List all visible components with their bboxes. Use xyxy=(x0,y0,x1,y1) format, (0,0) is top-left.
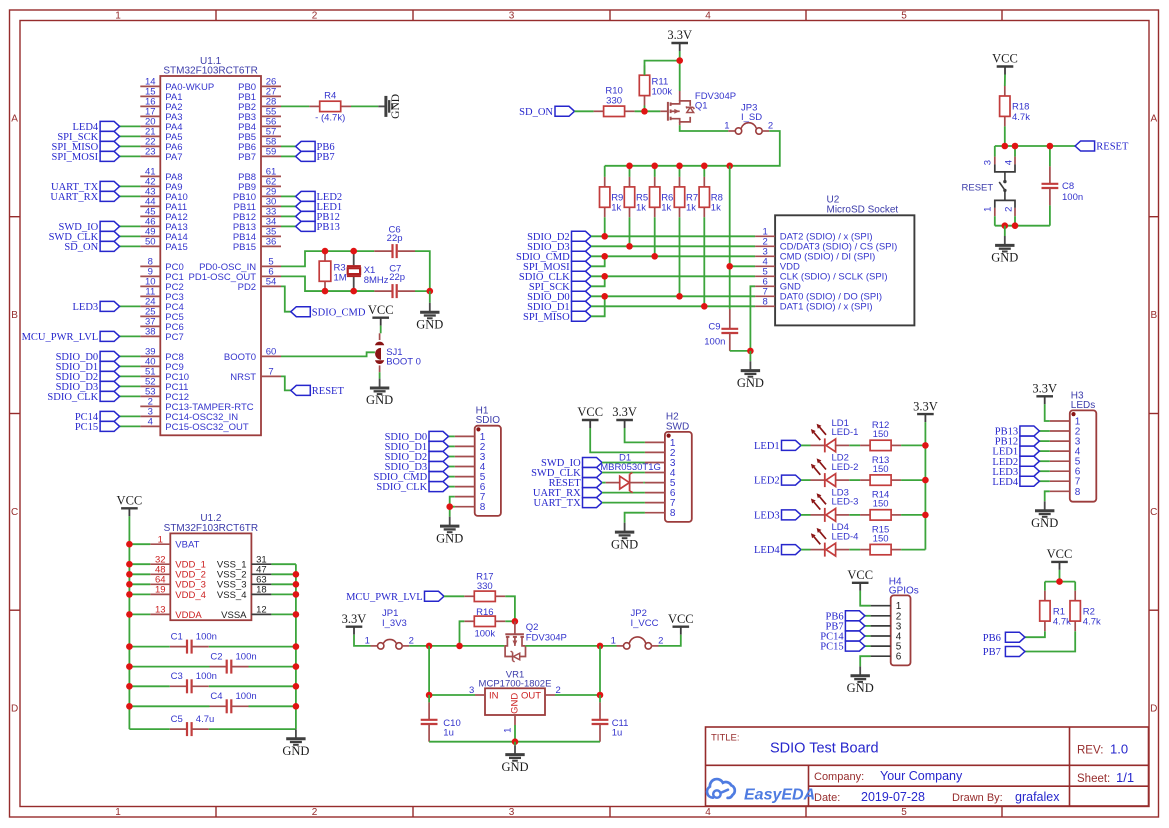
net flag RESET (right) xyxy=(1075,141,1129,153)
U1.1 pin 23 PA7 xyxy=(140,147,182,163)
net flag SPI_MISO xyxy=(52,141,120,153)
svg-text:150: 150 xyxy=(873,499,889,510)
junction dots on pull-up rail xyxy=(626,163,733,170)
svg-text:4: 4 xyxy=(705,807,711,818)
U1.2 pin 31 VSS_1 xyxy=(217,554,271,570)
wire LD1 to R12 xyxy=(849,444,860,446)
wire PD2 to SDIO_CMD flag xyxy=(281,286,291,311)
svg-text:FDV304P: FDV304P xyxy=(526,633,567,644)
wire VCC to R18 xyxy=(1004,75,1006,87)
wire rail to C4 xyxy=(129,705,209,707)
wire R16 to 3V3 rail xyxy=(460,621,465,646)
U1.1 pin 49 PA14 xyxy=(140,227,188,243)
net flag PB12 (H3) xyxy=(995,436,1040,448)
net flag MCU_PWR_LVL xyxy=(22,331,120,343)
wire R5 to SDIO_D3 row xyxy=(629,217,631,246)
junction dots VR1 row xyxy=(426,692,603,699)
net flag SDIO_D3 (H1) xyxy=(385,462,449,474)
svg-text:22p: 22p xyxy=(389,272,405,283)
net flag SWD_CLK xyxy=(49,231,120,243)
net flag SDIO_D0 (bus) xyxy=(527,291,591,303)
junction dots crystal rails xyxy=(322,248,433,295)
H1 pin 2 xyxy=(455,442,486,453)
svg-text:1k: 1k xyxy=(636,202,646,213)
crystal X1 8MHz xyxy=(347,251,389,291)
U2 pin 6 GND xyxy=(755,277,801,293)
net flag PB7 xyxy=(296,151,335,163)
power flag VCC at H2 xyxy=(577,405,603,428)
H3 pin 4 xyxy=(1050,447,1081,458)
solder jumper JP2 I_VCC xyxy=(611,608,664,649)
svg-text:150: 150 xyxy=(873,533,889,544)
svg-text:GND: GND xyxy=(436,531,463,545)
H4 pin 2 xyxy=(871,611,902,622)
resistor R7 1k xyxy=(674,166,698,218)
U1.1 pin 57 PB5 xyxy=(238,127,281,143)
svg-text:1: 1 xyxy=(982,207,993,212)
U1.1 pin 28 PB2 xyxy=(238,97,281,113)
svg-text:4.7k: 4.7k xyxy=(1053,616,1071,627)
wire to PC15 flag xyxy=(120,425,141,427)
svg-text:VCC: VCC xyxy=(668,612,694,626)
svg-text:8: 8 xyxy=(480,502,486,513)
ground under H1 xyxy=(436,517,463,546)
wire VSS_3 to rail xyxy=(271,583,296,585)
wire PD0-OSC_IN to crystal rail xyxy=(281,251,374,266)
svg-text:1.0: 1.0 xyxy=(1110,742,1128,757)
junction dot C9 GND xyxy=(747,348,754,355)
IC U2 MicroSD Socket xyxy=(775,195,914,326)
U1.1 pin 45 PA12 xyxy=(140,207,188,223)
H2 pin 6 xyxy=(645,488,676,499)
U2 pin 7 DAT0 (SDIO) / DO (SPI) xyxy=(755,287,882,303)
svg-text:C2: C2 xyxy=(210,651,222,662)
net flag PB13 (H3) xyxy=(995,426,1040,438)
svg-text:1: 1 xyxy=(724,121,729,132)
H4 pin 3 xyxy=(871,621,902,632)
svg-text:VCC: VCC xyxy=(368,303,394,317)
wire SPI_MISO joins D0 xyxy=(591,296,605,316)
wire regulator ground rail xyxy=(429,741,600,743)
power flag VCC at R1 R2 xyxy=(1047,547,1073,570)
svg-text:100k: 100k xyxy=(474,629,495,640)
svg-text:7: 7 xyxy=(268,367,273,378)
ground (rotated) at R4 xyxy=(378,94,402,119)
wire VSS_4 to rail xyxy=(271,593,296,595)
svg-text:50: 50 xyxy=(145,237,156,248)
net flag SDIO_D3 xyxy=(56,381,120,393)
U1.1 pin 41 PA8 xyxy=(140,167,182,183)
svg-text:PB6: PB6 xyxy=(983,633,1001,644)
svg-text:8MHz: 8MHz xyxy=(364,275,389,286)
svg-text:LED-2: LED-2 xyxy=(832,462,859,473)
net flag LED1 (H3) xyxy=(992,446,1039,458)
svg-text:150: 150 xyxy=(873,464,889,475)
svg-text:54: 54 xyxy=(266,277,277,288)
U1.1 pin 37 PC6 xyxy=(140,317,183,333)
svg-text:3.3V: 3.3V xyxy=(1032,382,1057,396)
wire LED4 to LD4 xyxy=(801,549,811,551)
resistor R1 4.7k xyxy=(1040,582,1071,632)
net flag SDIO_CLK (bus) xyxy=(519,271,591,283)
svg-text:PC15: PC15 xyxy=(820,642,843,653)
wire R4 to GND xyxy=(351,105,378,107)
wire to SDIO_D1 flag xyxy=(120,365,141,367)
header H1 SDIO xyxy=(475,406,501,516)
net flag PB6 (pullup) xyxy=(983,632,1025,644)
net flag PC14 (H4) xyxy=(820,631,865,643)
LED LD2 LED-2 xyxy=(811,453,859,488)
wire LED3 to H3 xyxy=(1039,470,1049,472)
H1 pin 3 xyxy=(455,452,486,463)
wire JP1 to 3V3 node xyxy=(409,645,429,647)
wire JP3 to pull-up rail xyxy=(730,131,780,166)
header H4 GPIOs xyxy=(889,576,919,665)
net flag SDIO_D1 (H1) xyxy=(385,441,449,453)
svg-text:VSS_4: VSS_4 xyxy=(217,590,247,601)
net flag SDIO_D2 (H1) xyxy=(385,452,449,464)
svg-text:150: 150 xyxy=(873,429,889,440)
svg-text:4: 4 xyxy=(705,11,711,22)
svg-text:OUT: OUT xyxy=(521,691,541,702)
wire to LED4 flag xyxy=(120,125,141,127)
svg-text:grafalex: grafalex xyxy=(1015,790,1060,804)
net flag LED1 xyxy=(296,201,343,213)
net flag SDIO_D0 xyxy=(56,351,120,363)
svg-text:REV:: REV: xyxy=(1077,745,1103,757)
net flag PB6 (H4) xyxy=(826,611,865,623)
svg-text:A: A xyxy=(1150,114,1157,125)
wire rail to C5 xyxy=(129,728,169,730)
net flag PB7 (H4) xyxy=(826,621,865,633)
wire C9 to GND junction xyxy=(730,350,751,352)
net flag SWD_IO (H2) xyxy=(541,458,602,470)
U1.1 pin 16 PA2 xyxy=(140,97,182,113)
net flag MCU_PWR_LVL (driver) xyxy=(346,591,444,603)
net flag SDIO_CMD xyxy=(291,307,366,319)
ground under C9 xyxy=(737,361,764,390)
wire SDIO_D3 to H1 xyxy=(449,466,455,468)
H3 pin 6 xyxy=(1050,467,1081,478)
wire SJ1 to GND xyxy=(379,365,381,378)
svg-text:1: 1 xyxy=(115,11,121,22)
svg-text:VCC: VCC xyxy=(577,405,603,419)
svg-text:STM32F103RCT6TR: STM32F103RCT6TR xyxy=(164,523,258,534)
svg-text:SPI_MOSI: SPI_MOSI xyxy=(52,152,99,163)
wire rail to C2 xyxy=(129,666,209,668)
wire rail to VDD_2 xyxy=(129,573,150,575)
wire to PB13 flag xyxy=(281,225,296,227)
U1.1 pin 50 PA15 xyxy=(140,237,188,253)
svg-text:1: 1 xyxy=(611,636,616,647)
svg-text:GND: GND xyxy=(1031,516,1058,530)
svg-text:MCU_PWR_LVL: MCU_PWR_LVL xyxy=(346,592,423,603)
wire R11 bottom to gate net xyxy=(644,106,646,112)
wire LED2 to LD2 xyxy=(801,479,811,481)
title block xyxy=(706,727,1149,806)
U1.2 pin 48 VDD_2 xyxy=(150,565,206,581)
svg-text:PC15-OSC32_OUT: PC15-OSC32_OUT xyxy=(165,422,249,433)
svg-text:1k: 1k xyxy=(711,202,721,213)
svg-text:GND: GND xyxy=(737,376,764,390)
power flag 3.3V at H2 xyxy=(612,405,637,428)
net flag SPI_MOSI xyxy=(52,151,120,163)
svg-text:VCC: VCC xyxy=(1047,547,1073,561)
svg-text:13: 13 xyxy=(155,605,166,616)
svg-text:RESET: RESET xyxy=(312,386,345,397)
net flag LED2 xyxy=(296,191,343,203)
svg-text:D: D xyxy=(1150,704,1157,715)
wire UART_RX to H2 xyxy=(602,492,645,494)
wire SDIO_D2 to H1 xyxy=(449,456,455,458)
H2 pin 3 xyxy=(645,458,676,469)
svg-text:4: 4 xyxy=(148,417,153,428)
H1 pin 1 xyxy=(455,432,486,443)
svg-text:LED-3: LED-3 xyxy=(832,497,859,508)
wire to SDIO_CLK flag xyxy=(120,395,141,397)
net flag UART_TX xyxy=(51,181,120,193)
wire SDIO_CLK to H1 xyxy=(449,486,455,488)
wire LED1 to H3 xyxy=(1039,450,1049,452)
H3 pin 2 xyxy=(1050,427,1081,438)
svg-text:- (4.7k): - (4.7k) xyxy=(315,113,345,124)
svg-text:UART_TX: UART_TX xyxy=(533,498,581,509)
svg-text:4.7k: 4.7k xyxy=(1012,112,1030,123)
wire H1 pin8 to GND xyxy=(450,507,455,517)
svg-text:I_SD: I_SD xyxy=(741,112,762,123)
junction dot Q2 gate xyxy=(512,618,519,625)
net flag PB6 xyxy=(296,141,335,153)
svg-text:100n: 100n xyxy=(236,691,257,702)
wire VR1 GND pin xyxy=(514,725,516,742)
svg-text:LED-4: LED-4 xyxy=(832,531,859,542)
H2 pin 5 xyxy=(645,478,676,489)
net flag SPI_MISO (bus) xyxy=(523,311,591,323)
U1.1 pin 51 PC10 xyxy=(140,367,189,383)
U1.1 pin 6 PD1-OSC_OUT xyxy=(189,267,281,283)
net flag SWD_IO xyxy=(59,221,120,233)
capacitor C9 100n xyxy=(704,309,738,351)
svg-text:STM32F103RCT6TR: STM32F103RCT6TR xyxy=(163,66,257,77)
U2 pin 5 CLK (SDIO) / SCLK (SPI) xyxy=(755,267,887,283)
junction dots reset net xyxy=(1002,143,1054,229)
svg-text:1/1: 1/1 xyxy=(1116,770,1134,785)
net flag UART_RX (H2) xyxy=(533,488,602,500)
svg-text:GND: GND xyxy=(501,760,528,774)
wire SDIO_D0 to H1 xyxy=(449,435,455,437)
wire LED3 to LD3 xyxy=(801,514,811,516)
wire VCC rail left U1.2 xyxy=(128,516,130,729)
svg-text:8: 8 xyxy=(670,508,676,519)
svg-text:100n: 100n xyxy=(236,651,257,662)
svg-text:R16: R16 xyxy=(476,607,493,618)
U2 pin 2 CD/DAT3 (SDIO) / CS (SPI) xyxy=(755,237,897,253)
wire C4 to VSS rail xyxy=(249,705,296,707)
wire SDIO_D1 to H1 xyxy=(449,445,455,447)
U1.1 pin 62 PB9 xyxy=(238,177,281,193)
power flag 3.3V at H3 xyxy=(1032,382,1057,405)
wire rail to VDD_3 xyxy=(129,583,150,585)
LED LD1 LED-1 xyxy=(811,418,859,453)
U1.1 pin 59 PB7 xyxy=(238,147,281,163)
wire VCC to SJ1 xyxy=(380,326,381,340)
wire VSSA to rail xyxy=(271,613,296,615)
U1.1 pin 25 PC5 xyxy=(140,307,183,323)
svg-text:5: 5 xyxy=(901,11,907,22)
wire SDIO_D0 row xyxy=(591,295,755,297)
svg-text:8: 8 xyxy=(1075,487,1081,498)
svg-text:LEDs: LEDs xyxy=(1071,400,1095,411)
svg-text:LED4: LED4 xyxy=(992,477,1018,488)
net flag PC15 xyxy=(75,421,120,433)
U1.1 pin 35 PB14 xyxy=(233,227,281,243)
svg-text:23: 23 xyxy=(145,147,156,158)
svg-text:3.3V: 3.3V xyxy=(342,612,367,626)
U1.1 pin 4 PC15-OSC32_OUT xyxy=(140,417,249,433)
svg-text:Sheet:: Sheet: xyxy=(1077,773,1110,785)
wire junction to GND xyxy=(749,351,751,361)
H3 pin 7 xyxy=(1050,477,1081,488)
wire D1 to H2 pin5 xyxy=(643,482,645,484)
U1.1 pin 60 BOOT0 xyxy=(224,347,281,363)
wire VR1 OUT xyxy=(555,694,600,696)
U2 pin 1 DAT2 (SDIO) / x (SPI) xyxy=(755,227,872,243)
wire NRST to RESET flag xyxy=(281,376,291,390)
wire to LED2 flag xyxy=(281,195,296,197)
wire SDIO_D2 row xyxy=(591,235,755,237)
svg-text:GPIOs: GPIOs xyxy=(889,586,919,597)
wire R11 top to 3.3V rail xyxy=(645,61,680,76)
power flag VCC at U1.2 xyxy=(117,494,143,517)
U1.1 pin 56 PB4 xyxy=(238,117,281,133)
svg-text:3: 3 xyxy=(509,11,515,22)
wire SDIO_CMD row xyxy=(591,255,755,257)
U1.1 pin 29 PB10 xyxy=(233,187,281,203)
net flag LED4 xyxy=(73,121,120,133)
wire VSS_1 to rail xyxy=(271,563,296,565)
wire rail to VDD_4 xyxy=(129,593,150,595)
resistor R3 1M xyxy=(319,251,347,291)
svg-text:PC7: PC7 xyxy=(165,332,183,343)
wire 3.3V to JP1 xyxy=(354,635,371,646)
U1.1 pin 8 PC0 xyxy=(140,257,183,273)
wire R6 to SDIO_CMD row xyxy=(654,217,656,256)
H1 pin 7 xyxy=(455,492,486,503)
ground under H3 xyxy=(1031,501,1058,530)
wire R10 to Q1 gate xyxy=(635,110,661,112)
svg-text:4: 4 xyxy=(1003,160,1014,165)
wire to PB6 flag xyxy=(281,145,296,147)
net flag SDIO_D0 (H1) xyxy=(385,431,449,443)
wire PB13 to H3 xyxy=(1039,430,1049,432)
U1.1 pin 53 PC12 xyxy=(140,387,189,403)
U1.1 pin 43 PA10 xyxy=(140,187,188,203)
ground under SJ1 xyxy=(366,379,393,408)
svg-text:22p: 22p xyxy=(387,233,403,244)
svg-text:2: 2 xyxy=(312,807,318,818)
wire R9 to SDIO_D2 row xyxy=(604,217,606,236)
U1.1 pin 27 PB1 xyxy=(238,87,281,103)
svg-text:330: 330 xyxy=(606,95,622,106)
net flag SDIO_D2 (bus) xyxy=(527,231,591,243)
svg-text:12: 12 xyxy=(256,605,267,616)
net flag RESET (H2) xyxy=(549,478,602,490)
svg-text:PD2: PD2 xyxy=(238,282,256,293)
svg-text:C9: C9 xyxy=(708,322,720,333)
U1.1 pin 7 NRST xyxy=(230,367,281,383)
svg-text:GND: GND xyxy=(509,693,520,714)
svg-text:LED4: LED4 xyxy=(754,545,780,556)
U1.1 pin 14 PA0-WKUP xyxy=(140,77,214,93)
header H2 SWD xyxy=(665,412,692,522)
power flag 3.3V at JP1 xyxy=(342,612,367,635)
wire VCC node down to VR1 OUT xyxy=(599,646,601,695)
wire PB6 to H4 xyxy=(865,615,871,617)
wire VSS_2 to rail xyxy=(271,573,296,575)
wire LD2 to R13 xyxy=(849,479,860,481)
svg-text:100n: 100n xyxy=(196,671,217,682)
svg-text:59: 59 xyxy=(266,147,277,158)
svg-text:19: 19 xyxy=(155,585,166,596)
power flag VCC at SJ1 xyxy=(368,303,394,326)
svg-text:SDIO Test Board: SDIO Test Board xyxy=(770,741,879,757)
wire rail to C1 xyxy=(129,646,169,648)
H2 pin 2 xyxy=(645,448,676,459)
U2 pin 4 VDD xyxy=(755,257,800,273)
net flag PB13 xyxy=(296,221,340,233)
wire 3V3 node down to VR1 IN xyxy=(428,646,430,695)
U1.1 pin 33 PB12 xyxy=(233,207,281,223)
svg-text:R18: R18 xyxy=(1012,102,1029,113)
svg-text:EasyEDA: EasyEDA xyxy=(744,786,815,803)
H1 pin 4 xyxy=(455,462,486,473)
svg-text:1u: 1u xyxy=(443,728,454,739)
H2 pin 4 xyxy=(645,468,676,479)
U1.1 pin 20 PA4 xyxy=(140,117,182,133)
svg-text:B: B xyxy=(11,310,18,321)
H4 pin 1 xyxy=(871,601,902,612)
H1 pin 6 xyxy=(455,482,486,493)
wire R17 to Q2 gate xyxy=(505,596,515,621)
svg-text:Company:: Company: xyxy=(814,771,864,783)
wire 3.3V LED rail xyxy=(924,422,926,549)
svg-text:BOOT 0: BOOT 0 xyxy=(386,357,421,368)
svg-text:GND: GND xyxy=(611,537,638,551)
net flag SDIO_CLK (H1) xyxy=(376,482,448,494)
wire 3V3 node rail to Q2 xyxy=(429,645,504,647)
svg-text:2019-07-28: 2019-07-28 xyxy=(861,790,925,804)
capacitor C5 4.7u xyxy=(170,714,215,736)
wire Q2 drain to VCC node xyxy=(525,645,616,647)
net flag LED1 (led) xyxy=(754,440,801,452)
H4 pin 6 xyxy=(871,652,902,663)
wire SDIO_D3 row xyxy=(591,245,755,247)
net flag PB7 (pullup) xyxy=(983,647,1025,659)
junction dot H1 GND xyxy=(446,503,453,510)
power flag VCC at H4 xyxy=(847,568,873,591)
wire LD3 to R14 xyxy=(849,514,860,516)
svg-text:SWD: SWD xyxy=(666,421,689,432)
U1.1 pin 46 PA13 xyxy=(140,217,188,233)
ground under reset switch xyxy=(991,236,1018,265)
wire VR1 IN xyxy=(429,694,475,696)
net flag SD_ON xyxy=(64,241,119,253)
wire to PB7 flag xyxy=(281,155,296,157)
U1.1 pin 38 PC7 xyxy=(140,327,183,343)
wire reset net to RESET flag xyxy=(1050,145,1075,147)
svg-text:GND: GND xyxy=(366,393,393,407)
svg-text:PA15: PA15 xyxy=(165,242,188,253)
